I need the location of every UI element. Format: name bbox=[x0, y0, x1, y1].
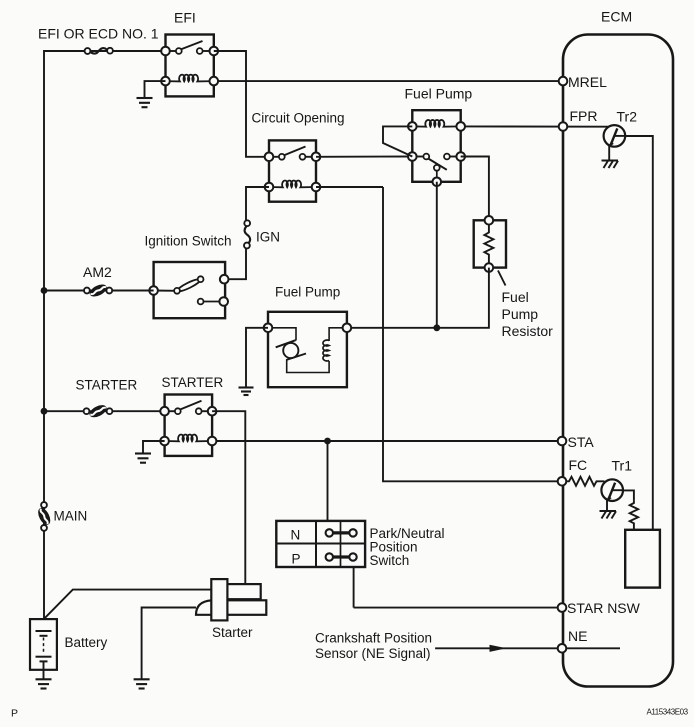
wire main battery bus bbox=[44, 51, 166, 619]
svg-text:N: N bbox=[291, 528, 301, 543]
pin FPR bbox=[559, 122, 568, 131]
fuse EFI OR ECD NO. 1 bbox=[85, 48, 113, 54]
label Crankshaft Position Sensor (NE Signal) bbox=[315, 631, 432, 662]
motor Fuel-Pump bbox=[264, 312, 352, 387]
wire Tr1 collector bbox=[623, 490, 634, 501]
svg-text:Tr2: Tr2 bbox=[617, 109, 638, 125]
svg-text:ECM: ECM bbox=[601, 9, 632, 25]
resistor (FC base resistor) bbox=[567, 477, 605, 486]
wire Circuit Opening switch to Fuel Pump relay bbox=[316, 156, 412, 158]
wire FPR row (fuel pump relay coil to Tr2 base) bbox=[461, 125, 609, 127]
wire to park/neutral switch bbox=[327, 441, 329, 521]
label Fuel Pump Resistor bbox=[502, 289, 554, 339]
motor Starter bbox=[196, 579, 266, 620]
wire MREL (EFI relay coil to ECM) bbox=[214, 80, 563, 82]
relay Fuel-Pump (coil on top) bbox=[408, 110, 465, 186]
wire starter to ground bbox=[142, 608, 196, 680]
svg-text:MAIN: MAIN bbox=[54, 509, 88, 524]
svg-text:Fuel: Fuel bbox=[502, 289, 529, 305]
arrowhead (crankshaft signal) bbox=[490, 645, 507, 652]
pin NE bbox=[558, 644, 567, 653]
wire AM2 row bbox=[44, 290, 154, 292]
ground (fuel pump) bbox=[239, 388, 254, 396]
ground (Tr1 emitter, chassis style) bbox=[600, 511, 617, 519]
pin MREL bbox=[559, 77, 568, 86]
switch SW-Park/Neutral bbox=[276, 521, 365, 567]
svg-text:STA: STA bbox=[568, 434, 595, 450]
relay EFI bbox=[161, 35, 218, 97]
wire Circuit Opening coil to IGN fuse bbox=[246, 187, 269, 220]
ground (starter relay) bbox=[135, 454, 151, 463]
svg-text:P: P bbox=[11, 708, 18, 720]
svg-text:NE: NE bbox=[568, 628, 587, 644]
wire IGN fuse to ignition switch bbox=[225, 248, 246, 279]
wire Circuit Opening coil to FC line bbox=[316, 186, 383, 188]
wire starter relay switch to starter motor bbox=[212, 411, 245, 584]
pin FC bbox=[558, 477, 567, 486]
wire STARTER row bbox=[44, 410, 165, 412]
transistor U-Tr1 bbox=[601, 479, 623, 511]
resistor Fuel-Pump-Resistor bbox=[474, 216, 506, 272]
wire Tr2 collector to internal box bbox=[625, 136, 653, 530]
svg-text:Tr1: Tr1 bbox=[612, 458, 633, 474]
junction node AM2 row bbox=[41, 287, 48, 294]
ground (EFI relay) bbox=[137, 98, 153, 107]
svg-text:EFI: EFI bbox=[174, 10, 196, 26]
svg-text:STAR NSW: STAR NSW bbox=[567, 600, 641, 616]
wire STAR NSW bbox=[354, 607, 562, 609]
wire fuel pump to ground bbox=[246, 328, 268, 388]
wire fuel pump relay coil feed (diagonal) bbox=[383, 126, 412, 156]
ground (starter) bbox=[134, 679, 150, 688]
wire park/neutral to STAR NSW bbox=[353, 567, 355, 608]
wire battery positive to starter bbox=[44, 590, 212, 620]
wire starter relay coil to ground bbox=[143, 441, 165, 454]
svg-text:P: P bbox=[292, 552, 301, 567]
svg-text:STARTER: STARTER bbox=[76, 378, 138, 393]
ground (battery) bbox=[36, 679, 52, 688]
svg-text:Switch: Switch bbox=[370, 553, 410, 568]
pin STAR NSW bbox=[558, 603, 567, 612]
battery BT1 bbox=[30, 619, 57, 679]
ECM outline bbox=[563, 35, 673, 687]
svg-text:STARTER: STARTER bbox=[162, 375, 224, 390]
svg-text:Ignition Switch: Ignition Switch bbox=[145, 234, 232, 249]
wire fuel pump resistor bottom to pump line bbox=[347, 268, 489, 328]
svg-text:Resistor: Resistor bbox=[502, 323, 554, 339]
fuse IGN bbox=[244, 220, 250, 248]
svg-text:FPR: FPR bbox=[570, 108, 598, 124]
leader line fuel pump resistor bbox=[498, 271, 506, 286]
wire fuel pump relay switch to resistor bbox=[461, 157, 489, 221]
wire EFI coil to ground bbox=[145, 81, 166, 98]
junction node fuel pump feed bbox=[433, 324, 440, 331]
label Park/Neutral Position Switch bbox=[370, 526, 445, 568]
wire NE (inside ECM stub) bbox=[435, 647, 620, 649]
svg-text:Fuel Pump: Fuel Pump bbox=[405, 86, 473, 102]
switch SW-Ignition bbox=[149, 262, 228, 318]
junction node STA to park/neutral bbox=[324, 438, 331, 445]
junction node STARTER row bbox=[41, 408, 48, 415]
resistor (Tr1 collector pull, vertical) bbox=[630, 501, 638, 530]
wire EFI switch to Circuit Opening relay bbox=[214, 51, 269, 157]
svg-text:Fuel Pump: Fuel Pump bbox=[275, 285, 340, 300]
fusible link AM2 bbox=[84, 282, 112, 299]
wire FC (vertical from Circuit Opening coil, to FC pin) bbox=[383, 187, 567, 481]
transistor U-Tr2 bbox=[604, 125, 626, 160]
component block inside ECM bbox=[625, 530, 660, 588]
relay STARTER bbox=[160, 395, 216, 456]
fusible link MAIN bbox=[36, 502, 53, 531]
svg-text:Circuit Opening: Circuit Opening bbox=[252, 111, 345, 126]
svg-text:MREL: MREL bbox=[568, 74, 607, 90]
wire STA (starter relay coil to ECM) bbox=[212, 440, 562, 442]
svg-text:FC: FC bbox=[569, 457, 588, 473]
pin STA bbox=[558, 437, 567, 446]
ground (Tr2 emitter, chassis style) bbox=[602, 161, 619, 169]
svg-text:Crankshaft Position: Crankshaft Position bbox=[315, 631, 432, 646]
svg-text:Sensor (NE Signal): Sensor (NE Signal) bbox=[315, 646, 431, 661]
svg-text:Battery: Battery bbox=[65, 635, 108, 650]
relay Circuit-Opening bbox=[265, 140, 321, 201]
wire fuel pump relay output (bottom) bbox=[436, 182, 438, 328]
svg-text:IGN: IGN bbox=[256, 230, 280, 245]
fusible link STARTER bbox=[84, 403, 113, 420]
svg-text:EFI OR ECD NO. 1: EFI OR ECD NO. 1 bbox=[38, 26, 159, 42]
svg-text:Pump: Pump bbox=[502, 306, 539, 322]
svg-text:AM2: AM2 bbox=[83, 264, 112, 280]
svg-text:Starter: Starter bbox=[212, 625, 253, 640]
svg-text:A115343E03: A115343E03 bbox=[647, 708, 689, 717]
